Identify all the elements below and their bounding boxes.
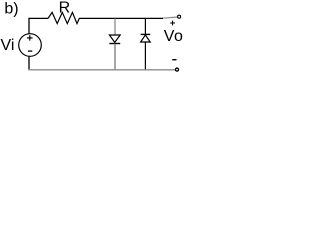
svg-text:R: R bbox=[59, 0, 71, 17]
diode D1 (cathode down) triangle bbox=[109, 35, 120, 42]
diode D2 branch top wire bbox=[144, 18, 146, 34]
node terminal top (output +) bbox=[178, 15, 181, 18]
wire top middle segment bbox=[79, 17, 163, 19]
diode D1 cathode bar bbox=[109, 43, 120, 45]
wire top left segment bbox=[28, 17, 48, 19]
wire left vertical top (source to top wire) bbox=[28, 18, 30, 34]
diode D2 cathode bar bbox=[141, 33, 151, 35]
svg-text:Vo: Vo bbox=[164, 28, 184, 45]
wire left vertical bottom (source to bottom wire) bbox=[28, 56, 30, 69]
diode D1 branch bottom wire bbox=[114, 44, 116, 70]
diode D2 branch bottom wire bbox=[144, 42, 146, 70]
voltage source Vi bbox=[19, 34, 42, 57]
output minus sign bbox=[172, 59, 176, 61]
source minus sign bbox=[28, 50, 32, 52]
svg-text:Vi: Vi bbox=[1, 37, 15, 54]
node terminal bottom (output -) bbox=[175, 68, 178, 71]
wire top right gray segment to terminal bbox=[163, 17, 178, 18]
wire bottom segment bbox=[28, 69, 175, 71]
output plus sign bbox=[170, 21, 175, 26]
diode D2 (cathode up) triangle bbox=[141, 35, 151, 42]
resistor R bbox=[48, 12, 79, 23]
source plus sign bbox=[27, 35, 33, 40]
diode D1 branch top wire bbox=[114, 18, 116, 35]
svg-text:b): b) bbox=[4, 1, 18, 18]
